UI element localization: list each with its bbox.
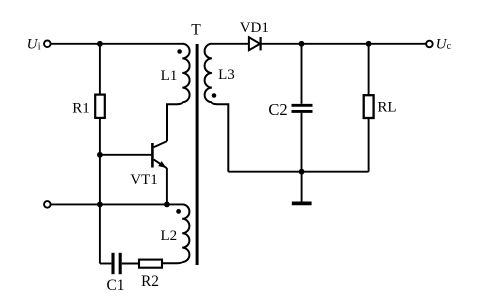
node emitter junction xyxy=(164,202,170,208)
wire RL column upper xyxy=(368,44,370,95)
wire L1 bottom lead to collector xyxy=(167,102,182,141)
svg-text:VT1: VT1 xyxy=(130,172,158,188)
wire top rail cathode side xyxy=(261,43,426,45)
svg-text:i: i xyxy=(38,42,41,53)
polarity dot L2 xyxy=(176,209,181,214)
transistor VT1 xyxy=(152,141,166,168)
svg-text:R2: R2 xyxy=(141,273,159,290)
wire lower input rail xyxy=(51,203,183,205)
inductor L2 feedback winding xyxy=(182,204,189,262)
wire base xyxy=(100,154,151,156)
resistor R1 xyxy=(95,95,105,118)
inductor L3 secondary winding xyxy=(205,44,212,102)
resistor R2 xyxy=(139,260,162,268)
wire emitter lead xyxy=(166,168,168,204)
wire L2 bottom lead to R2 xyxy=(162,262,182,263)
svg-text:R1: R1 xyxy=(72,100,90,116)
svg-text:L2: L2 xyxy=(160,228,177,244)
svg-text:C1: C1 xyxy=(106,277,124,294)
wire C2 column lower xyxy=(301,113,303,172)
terminal output Uc xyxy=(426,41,433,48)
svg-text:L1: L1 xyxy=(161,68,178,84)
svg-text:VD1: VD1 xyxy=(240,20,269,36)
wire top-left rail xyxy=(51,43,183,45)
svg-text:c: c xyxy=(447,41,452,52)
wire bottom right rail xyxy=(228,171,368,173)
transformer T core xyxy=(196,44,199,265)
node base junction xyxy=(97,152,103,158)
wire L3 bottom lead down to output rail xyxy=(212,102,228,172)
polarity dot L1 xyxy=(177,49,182,54)
node junction top of R1 column xyxy=(97,41,103,47)
wire left column upper xyxy=(99,44,101,95)
terminal input bottom xyxy=(44,201,51,208)
wire ground stub xyxy=(301,172,303,202)
capacitor C1 xyxy=(113,253,120,274)
wire bottom left rail segment a xyxy=(100,263,112,265)
polarity dot L3 xyxy=(212,93,217,98)
wire RL column lower xyxy=(368,118,370,172)
svg-text:L3: L3 xyxy=(218,67,235,83)
node lower rail at left column xyxy=(97,202,103,208)
ground xyxy=(292,201,312,205)
svg-text:C2: C2 xyxy=(268,100,287,119)
diode VD1 xyxy=(249,37,261,50)
resistor RL xyxy=(364,95,374,118)
wire C2 column upper xyxy=(301,44,303,104)
wire left column middle xyxy=(99,118,101,263)
inductor L1 primary winding xyxy=(182,44,189,102)
node RL top xyxy=(366,41,372,47)
wire bottom left rail segment b xyxy=(122,263,139,265)
svg-text:T: T xyxy=(191,22,201,39)
terminal input top Ui xyxy=(44,41,51,48)
node C2 top xyxy=(299,41,305,47)
capacitor C2 xyxy=(292,105,313,111)
svg-text:RL: RL xyxy=(377,100,396,116)
wire top rail anode side xyxy=(212,43,249,45)
node ground junction xyxy=(299,169,305,175)
